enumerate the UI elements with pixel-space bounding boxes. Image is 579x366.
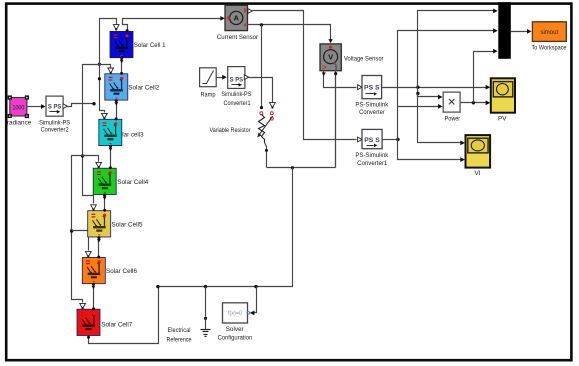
svg-text:f(x)=0: f(x)=0 bbox=[228, 311, 243, 317]
block Solver Configuration bbox=[223, 303, 250, 323]
component Variable Resistor bbox=[257, 112, 273, 143]
svg-text:>: > bbox=[322, 62, 327, 71]
svg-text:Configuration: Configuration bbox=[218, 335, 253, 342]
svg-text:Variable Resistor: Variable Resistor bbox=[210, 127, 252, 134]
wire mid rail resistor to voltage sensor bbox=[267, 167, 336, 169]
wire Irradiance to Simulink-PS Converter2 bbox=[27, 106, 43, 108]
mux block bbox=[498, 2, 511, 59]
output port converter2 bbox=[63, 104, 67, 109]
wire bus right to Solar Cell2 Ir bbox=[100, 65, 111, 68]
source block Irradiance (constant 1000) bbox=[8, 95, 29, 118]
block PS-Simulink Converter bbox=[358, 76, 382, 99]
electrical reference ground symbol bbox=[201, 287, 211, 337]
svg-text:PV: PV bbox=[498, 115, 507, 122]
svg-text:Converter1: Converter1 bbox=[224, 100, 251, 107]
junction bottom rail ground tap bbox=[204, 285, 207, 288]
block simout To Workspace bbox=[532, 22, 566, 42]
svg-text:S PS: S PS bbox=[230, 76, 244, 83]
block Simulink-PS Converter2 bbox=[46, 96, 63, 116]
svg-text:Solar Cell6: Solar Cell6 bbox=[106, 268, 137, 275]
solar cell block Solar Cell2 bbox=[105, 74, 128, 100]
wire V vertical: up to Mux input1 bbox=[418, 11, 495, 88]
wire Solar Cell2 - to Solar cell3 + bbox=[116, 101, 118, 120]
wire bus branch to Solar Cell6 Ir bbox=[72, 231, 89, 251]
block Ramp bbox=[200, 68, 217, 87]
junction bottom rail left end bbox=[156, 285, 159, 288]
junction C on far-left bus bbox=[70, 229, 73, 232]
wire Mux output to simout bbox=[511, 31, 529, 33]
block PS-Simulink Converter1 bbox=[358, 129, 383, 148]
svg-text:Ramp: Ramp bbox=[201, 91, 216, 98]
svg-text:lar cell3: lar cell3 bbox=[122, 131, 143, 138]
wire Solar Cell4 - to Solar Cell5 + bbox=[104, 195, 106, 211]
junction bottom rail solver tap bbox=[254, 285, 257, 288]
wire Solar Cell6 - to Solar Cell7 + bbox=[93, 284, 95, 310]
solar cell block Solar Cell7 bbox=[77, 309, 100, 335]
wire Power output to PV bottom input bbox=[461, 102, 487, 104]
wire V vertical: down to VI top input bbox=[418, 88, 462, 143]
svg-text:Solver: Solver bbox=[226, 326, 245, 333]
junction V line bbox=[416, 86, 419, 89]
svg-text:Solar Cell2: Solar Cell2 bbox=[128, 85, 159, 92]
wire power branch up to Mux input3 bbox=[474, 52, 495, 103]
wire Solar Cell 1 + to Current Sensor input bbox=[123, 19, 222, 32]
wire I branch to Power input2 bbox=[398, 106, 440, 108]
output port Simulink-PS Converter1 bbox=[244, 75, 248, 80]
wire Current Sensor - terminal to node bbox=[248, 25, 331, 40]
svg-text:A: A bbox=[233, 14, 239, 23]
svg-text:Converter2: Converter2 bbox=[41, 127, 69, 134]
solar cell block Solar cell3 bbox=[99, 119, 122, 145]
wire Voltage Sensor PS out to PS-Simulink Converter bbox=[324, 71, 357, 88]
solar cell block Solar Cell6 bbox=[82, 257, 105, 283]
wire converter2 output to bus (ends in dot) bbox=[68, 104, 94, 107]
svg-text:Current Sensor: Current Sensor bbox=[217, 34, 259, 41]
svg-text:V: V bbox=[328, 53, 333, 62]
svg-text:PS S: PS S bbox=[364, 84, 380, 91]
svg-text:To Workspace: To Workspace bbox=[532, 45, 567, 52]
wire Ir bus: junction node A bbox=[98, 63, 101, 66]
svg-text:PS S: PS S bbox=[364, 137, 380, 144]
svg-text:1000: 1000 bbox=[13, 104, 25, 111]
wire node down to Variable Resistor left port bbox=[261, 25, 263, 108]
wire bus up to Solar Cell 1 Ir bbox=[100, 19, 117, 65]
svg-text:PS-Simulink: PS-Simulink bbox=[355, 152, 389, 159]
block Simulink-PS Converter1 bbox=[228, 67, 245, 89]
wire converter1 to Variable Resistor R port bbox=[249, 78, 273, 103]
wire Ramp to Simulink-PS Converter1 bbox=[217, 77, 224, 79]
svg-text:Solar Cell 1: Solar Cell 1 bbox=[134, 42, 166, 49]
block Current Sensor bbox=[225, 5, 248, 30]
junction B on bus bbox=[81, 154, 84, 157]
solar cell block Solar Cell5 bbox=[88, 211, 111, 237]
wire V branch to Power input1 bbox=[418, 94, 440, 97]
block Power (product) bbox=[443, 92, 460, 112]
svg-text:Voltage Sensor: Voltage Sensor bbox=[344, 55, 384, 62]
scope PV bbox=[491, 78, 515, 112]
scope VI bbox=[466, 135, 491, 168]
wire V: converter output to PV top input bbox=[382, 87, 487, 89]
svg-text:VI: VI bbox=[475, 170, 481, 177]
wire bus down to Solar Cell3 Ir bbox=[100, 65, 105, 113]
wire bus left branch down bbox=[83, 65, 100, 204]
wire mid rail down to bottom rail bbox=[158, 168, 293, 287]
wire I vertical: up to Mux input2 bbox=[398, 31, 495, 140]
svg-text:Solar Cell7: Solar Cell7 bbox=[101, 322, 132, 329]
svg-text:Simulink-PS: Simulink-PS bbox=[39, 119, 71, 126]
svg-text:S PS: S PS bbox=[48, 103, 62, 110]
svg-text:rradiance: rradiance bbox=[5, 119, 32, 126]
junction power output bbox=[472, 101, 475, 104]
wire Current Sensor I output to PS-Simulink Converter1 bbox=[253, 11, 357, 140]
svg-text:Converter: Converter bbox=[359, 109, 386, 116]
svg-text:simout: simout bbox=[540, 29, 558, 36]
wire Solar Cell7 - return to bottom rail bbox=[89, 287, 159, 344]
wire Variable Resistor bottom to rail bbox=[265, 143, 267, 168]
wire bus branch to Solar Cell4 Ir bbox=[83, 156, 99, 162]
svg-text:Power: Power bbox=[445, 116, 461, 123]
wire Voltage Sensor - down to rail bbox=[335, 71, 337, 168]
block Voltage Sensor bbox=[320, 44, 341, 71]
svg-text:PS-Simulink: PS-Simulink bbox=[355, 102, 389, 109]
junction mid rail bbox=[291, 166, 294, 169]
solar cell block Solar Cell4 bbox=[93, 168, 116, 194]
svg-text:Reference: Reference bbox=[167, 336, 192, 343]
wire solver tap down to Solver Configuration bbox=[253, 287, 257, 313]
svg-text:Simulink-PS: Simulink-PS bbox=[221, 91, 251, 98]
wire Solar cell3 - to Solar Cell4 + bbox=[110, 146, 112, 169]
svg-text:Converter1: Converter1 bbox=[357, 160, 387, 167]
svg-text:Solar Cell4: Solar Cell4 bbox=[117, 179, 148, 186]
wire I: converter1 output to junction bbox=[383, 139, 398, 141]
wire Solar Cell 1 - to Solar Cell2 + bbox=[121, 58, 123, 74]
solar cell block Solar Cell 1 bbox=[110, 31, 133, 57]
wire I vertical: down to VI bottom input bbox=[398, 140, 462, 160]
wire far-left bus down bbox=[72, 156, 83, 303]
output port Current Sensor (I) bbox=[248, 9, 252, 14]
svg-text:Solar Cell5: Solar Cell5 bbox=[112, 221, 143, 228]
svg-text:Electrical: Electrical bbox=[168, 327, 191, 334]
wire Solar Cell5 - to Solar Cell6 + bbox=[98, 237, 100, 258]
